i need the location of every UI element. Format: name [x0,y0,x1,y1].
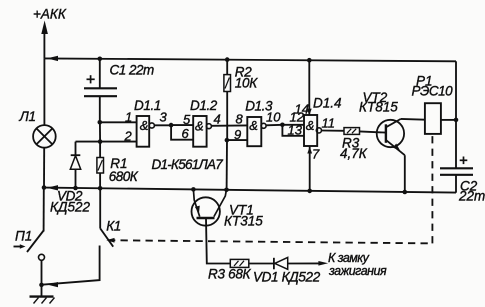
gate D1.2 ampersand [195,118,204,133]
label R3 [342,136,360,151]
svg-text:П1: П1 [15,229,32,244]
label C2 [460,179,478,194]
label D1 K561LA7 [152,157,224,172]
label K zamku [328,251,370,265]
node +AKK label [33,7,67,22]
svg-text:4,7К: 4,7К [340,146,368,161]
wire pin11 output to R3 [321,130,344,132]
resistor R3 68K [230,259,249,267]
label 680K [109,169,139,184]
label L1 [19,109,36,124]
switch K1 lever [100,228,113,246]
label pin 11 [322,116,336,131]
label pin 10 [266,110,281,125]
label pin 4 [214,112,221,127]
svg-text:11: 11 [322,116,336,131]
arrow pin7 pointing up [307,147,312,154]
label VD1 KD522 [253,270,321,285]
svg-text:КТ315: КТ315 [224,214,263,229]
node dot bottom rail VT2 emitter [403,190,408,195]
label pin 2 [124,129,133,144]
wire right rail [455,61,457,168]
svg-text:6: 6 [182,126,190,141]
svg-text:С1 22m: С1 22m [110,62,155,77]
label pin 12 [290,110,305,125]
svg-text:зажигания: зажигания [328,264,387,278]
wire VT2 collector to relay [401,118,425,121]
label pin 6 [182,126,190,141]
wire pin9 line [227,139,247,141]
gate D1.2 [193,116,211,147]
node dot bottom rail VD2 [73,186,78,191]
label K1 [106,218,120,233]
svg-text:13: 13 [288,123,303,138]
gate D1.3 [247,117,266,146]
arrow on K1 ground line pointing left [47,282,58,287]
arrow VT1 emitter [195,206,200,214]
label pin 13 [288,123,303,138]
dashed mechanical link vertical to relay [431,134,433,244]
svg-text:К замку: К замку [328,251,370,265]
svg-text:+АКК: +АКК [33,7,67,22]
label pin 14 [295,102,309,117]
node dot bottom rail VT1 right [224,188,229,193]
wire J1 feedback to pin6 [171,125,193,140]
wire pin7 to bottom rail [309,146,311,191]
svg-text:7: 7 [312,147,320,162]
arrow to ignition pointing right [318,261,328,266]
label zazhiganiya [328,264,387,278]
label pin 1 [125,110,132,125]
wire J2 to pin13 [282,125,304,136]
svg-text:9: 9 [234,127,241,142]
arrow on top rail pointing left [47,56,58,61]
svg-text:КД522: КД522 [50,200,90,215]
node junction J2 [280,123,285,128]
gate D1.4 [304,115,322,146]
arrow on bottom rail pointing left [47,185,58,190]
switch K1 lower contact wire [42,246,100,285]
svg-text:&: & [249,118,258,133]
node dot top rail pin14 [307,58,312,63]
node +AKK arrow [41,21,48,35]
wire pin3 output [154,124,171,126]
svg-text:&: & [140,118,149,133]
svg-text:680К: 680К [109,169,139,184]
node dot pin1 C1 [98,120,103,125]
gate D1.1 ampersand [140,118,149,133]
arrow VT2 emitter [393,144,400,151]
wire P1 contact to ground [41,260,43,296]
node junction J1 [169,123,174,128]
label pin 5 [183,112,191,127]
label P1 [416,74,433,89]
label VT2 [363,90,388,105]
node pin9 junction [225,138,230,143]
wire relay to right rail [441,119,456,121]
wire VT2 emitter down [404,155,406,192]
label R1 [110,156,127,171]
svg-text:22m: 22m [458,189,485,204]
wire VD1 to ignition arrow [288,262,320,264]
wire J1 to pin5 [171,124,193,126]
label pin 8 [236,112,244,127]
svg-text:10К: 10К [235,75,258,90]
arrow pin14 pointing down [307,109,312,116]
label D1.3 [245,99,273,114]
svg-text:&: & [306,118,315,133]
wire VT1 base down [206,219,230,264]
label D1.1 [134,98,161,113]
dashed mechanical link horizontal [108,240,432,243]
resistor R3 4.7K [344,128,360,135]
label P1 switch [15,229,32,244]
node dot bottom rail pin7 [307,189,312,194]
switch P1 lever [27,231,44,253]
node ground junction [39,283,44,288]
node dot right rail relay [454,118,459,123]
label 10K [235,75,258,90]
node dot top rail C1 [98,57,103,62]
svg-text:VD1 КД522: VD1 КД522 [253,270,321,285]
label pin 7 [312,147,320,162]
label KT315 [224,214,263,229]
gate D1.4 ampersand [306,118,315,133]
wire J2 to pin12 [282,124,304,126]
label VT1 [229,203,254,218]
diode VD1 [274,257,288,269]
svg-text:10: 10 [266,110,281,125]
svg-text:4: 4 [214,112,221,127]
wire R3 to VT2 base [360,131,386,132]
arrow P1 actuation [14,244,26,248]
transistor VT1 [192,189,227,225]
wire pin14 from top rail [308,60,310,115]
wire left vertical (rail to lamp) [43,58,45,125]
diode VD2 [70,142,80,189]
node dot pin2 R1 [98,139,103,144]
C2 plus sign [460,157,468,165]
label R3 68K [208,267,252,282]
label 22m [458,189,485,204]
wire R2 line down to bottom rail [226,140,228,190]
capacitor C2 [440,168,473,192]
wire pin2 line [76,141,137,143]
transistor VT2 [377,119,405,155]
label RES10 [412,84,454,99]
svg-text:&: & [195,118,204,133]
label KT815 [359,100,398,115]
gate D1.3 ampersand [249,118,258,133]
node dot top rail R2 [225,57,230,62]
wire top rail [44,58,456,61]
arrow on dashed link pointing left at K1 [106,238,114,243]
label D1.4 [313,96,342,111]
capacitor C1 [84,59,117,123]
C1 plus sign [87,75,95,83]
wire pin10 output [266,124,283,127]
label C1 22m [110,62,155,77]
node dot bottom rail VT1 left [191,187,196,192]
wire R3 68K to VD1 [249,263,274,265]
svg-text:Л1: Л1 [19,109,36,124]
wire pin4 to pin8 [211,124,247,126]
switch P1 fixed contact circle [39,254,45,260]
svg-text:5: 5 [183,112,191,127]
wire lamp bottom to bottom rail [43,148,45,188]
lamp L1 [33,125,56,148]
wire left vertical top (+AKK to rail corner) [43,31,45,58]
svg-text:D1-К561ЛА7: D1-К561ЛА7 [152,157,224,172]
label pin 3 [160,110,168,125]
svg-text:8: 8 [236,112,244,127]
label D1.2 [190,98,218,113]
resistor R2 with top rail connection [224,59,231,140]
svg-text:D1.4: D1.4 [313,96,342,111]
wire pin1 line [100,121,137,123]
svg-text:1: 1 [125,110,132,125]
svg-text:КТ815: КТ815 [359,100,398,115]
node dot bottom rail R1 [98,186,103,191]
svg-text:2: 2 [124,129,133,144]
label 4.7K [340,146,368,161]
label R2 [235,65,252,80]
wire bottom rail [44,188,456,193]
ground [30,297,55,304]
label pin 9 [234,127,241,142]
label KD522 [50,200,90,215]
svg-text:К1: К1 [106,218,120,233]
svg-text:R3 68К: R3 68К [208,267,252,282]
svg-text:РЭС10: РЭС10 [412,84,454,99]
switch P1 (power) wire from rail [43,188,45,232]
relay P1 coil [425,103,441,134]
switch K1 wire from rail [99,188,101,228]
resistor R1 [97,142,104,189]
node dot bottom rail lamp [42,185,47,190]
label VD2 [57,189,83,204]
wire C1 bottom to pin2 line [99,122,101,141]
svg-text:3: 3 [160,110,168,125]
svg-text:D1.1: D1.1 [134,98,161,113]
gate D1.1 [137,116,155,147]
